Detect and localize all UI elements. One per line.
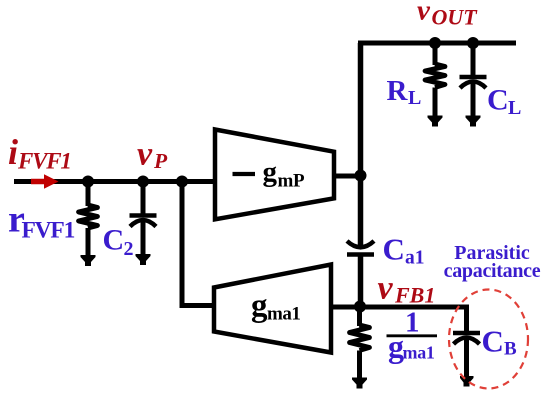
- op-amp gma1 (feedback stage): [214, 265, 331, 353]
- svg-text:OUT: OUT: [432, 5, 479, 30]
- svg-text:v: v: [417, 0, 431, 26]
- ground (below 1/gma1): [352, 378, 367, 389]
- capacitor C2: [130, 182, 157, 255]
- svg-text:R: R: [387, 75, 409, 107]
- resistor RL: [425, 43, 445, 116]
- svg-text:mP: mP: [278, 171, 306, 192]
- label 1/gma1: [387, 307, 438, 365]
- ground (below CL): [466, 116, 481, 127]
- current arrow iFVF1: [31, 174, 59, 189]
- ground (below rFVF1): [81, 255, 96, 266]
- svg-text:L: L: [408, 87, 421, 109]
- svg-text:ma1: ma1: [267, 304, 300, 325]
- wire: vP branch down to gma1 input: [182, 182, 216, 306]
- svg-text:FB1: FB1: [394, 282, 435, 307]
- node (gma1 branch tap): [176, 176, 188, 188]
- svg-text:capacitance: capacitance: [444, 260, 541, 282]
- wire: gma1 output: [331, 305, 361, 310]
- capacitor Ca1: [347, 241, 374, 307]
- svg-text:ma1: ma1: [403, 343, 435, 363]
- svg-text:C: C: [487, 84, 509, 117]
- node on rail (rFVF1 tap): [82, 176, 94, 188]
- resistor rFVF1: [79, 182, 98, 256]
- svg-text:FVF1: FVF1: [22, 217, 75, 243]
- svg-text:FVF1: FVF1: [17, 149, 71, 174]
- node (CL tap): [467, 37, 479, 49]
- wire: main input rail: [14, 179, 215, 184]
- svg-text:C: C: [383, 232, 405, 267]
- svg-text:B: B: [504, 339, 517, 360]
- op-amp gmP (transconductance stage): [215, 130, 334, 220]
- ground (below CB): [460, 376, 474, 387]
- node vP: [137, 176, 149, 188]
- svg-text:i: i: [8, 132, 18, 172]
- svg-text:P: P: [153, 149, 168, 173]
- svg-text:C: C: [482, 324, 504, 359]
- svg-text:2: 2: [124, 238, 134, 260]
- svg-text:a1: a1: [405, 248, 425, 269]
- capacitor CB: [453, 333, 480, 377]
- svg-text:1: 1: [405, 307, 420, 339]
- ground (below RL): [428, 116, 443, 127]
- label -gmP: [233, 172, 256, 176]
- node (RL tap): [429, 37, 441, 49]
- capacitor CL: [460, 43, 487, 116]
- svg-text:v: v: [378, 270, 394, 307]
- svg-text:L: L: [508, 97, 521, 119]
- parasitic highlight ellipse: [449, 290, 528, 389]
- wire: vertical line vOUT to Ca1: [358, 43, 364, 247]
- svg-text:C: C: [103, 224, 125, 257]
- node (gmP output): [355, 170, 367, 182]
- node vFB1: [354, 301, 366, 313]
- ground (below C2): [136, 254, 151, 265]
- svg-text:g: g: [251, 288, 268, 324]
- wire: gmP output: [334, 174, 362, 179]
- wire: top output rail: [358, 41, 516, 46]
- wire: vFB1 to CB: [360, 307, 467, 333]
- resistor 1/gma1: [350, 307, 370, 378]
- svg-text:v: v: [137, 135, 153, 172]
- svg-text:g: g: [263, 156, 278, 188]
